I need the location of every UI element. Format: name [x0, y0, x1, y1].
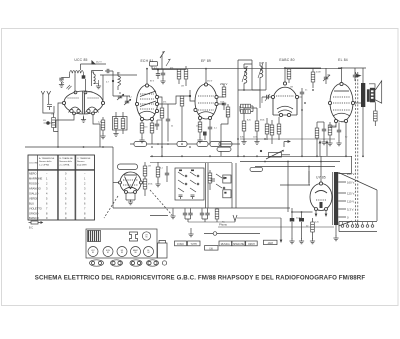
svg-text:160 V.: 160 V. [347, 181, 355, 185]
interstage wires tube2-tube3 [159, 103, 177, 105]
svg-text:5k: 5k [171, 126, 173, 128]
svg-text:COLORE: COLORE [29, 163, 38, 165]
trimmer capacitor CT2 [125, 101, 129, 103]
wire B+ to tube2 [146, 69, 148, 84]
resistor R21 [143, 179, 147, 189]
detector can box [238, 62, 266, 90]
knobs row [90, 260, 167, 266]
svg-text:ARANCIO: ARANCIO [29, 187, 41, 191]
capacitor C13 [300, 92, 304, 94]
capacitor C3 [166, 119, 170, 121]
svg-text:6,8k: 6,8k [240, 137, 244, 139]
node A [47, 122, 50, 125]
V arrow pickup [233, 215, 237, 221]
below tube5 parts [328, 125, 332, 135]
svg-text:1.a CIFRA: 1.a CIFRA [39, 164, 49, 167]
dark blob cap [203, 132, 207, 136]
svg-text:1,2k: 1,2k [315, 222, 319, 224]
long bus [150, 155, 352, 157]
svg-text:0,1: 0,1 [160, 168, 164, 170]
label box [177, 142, 187, 147]
svg-text:degli ZERI: degli ZERI [77, 165, 87, 167]
resistor R23 [215, 209, 219, 219]
small tube circle top right [142, 232, 150, 240]
shield box around R3 R4 [113, 117, 128, 131]
svg-text:JAZZ: JAZZ [267, 242, 273, 245]
svg-text:1M: 1M [268, 125, 271, 127]
svg-text:ROSSO: ROSSO [29, 182, 38, 186]
tube EF89 V3 [194, 83, 218, 120]
chassis transformer [158, 241, 168, 259]
node [189, 95, 191, 97]
bottom rail [113, 207, 290, 209]
svg-text:85 V: 85 V [150, 81, 155, 83]
svg-text:BIANCO: BIANCO [29, 216, 39, 220]
capacitor C19 [322, 129, 326, 131]
label box group: tone keys [175, 241, 187, 246]
resistor R16 [265, 124, 269, 134]
resistor R1 [52, 118, 56, 128]
capacitor inside switch [179, 195, 183, 199]
svg-text:125 V.: 125 V. [347, 192, 355, 196]
arrow pair tone [319, 141, 328, 156]
tube UCC85 V1 [62, 91, 104, 115]
ground below switch [170, 214, 175, 219]
wire filters [292, 208, 313, 212]
svg-text:85: 85 [92, 252, 94, 254]
svg-text:8,2: 8,2 [129, 97, 133, 99]
coil L2 [118, 76, 121, 86]
capacitor C9 [337, 130, 341, 132]
resistor R3 [114, 119, 118, 129]
voltage selector [339, 222, 377, 232]
mains switch diagonal [339, 173, 378, 191]
svg-text:FS: FS [43, 120, 46, 122]
bus with inline label boxes [25, 146, 113, 148]
capacitor dark blob [82, 75, 86, 78]
resistor R10 [180, 96, 184, 106]
dashed pointer [150, 190, 172, 215]
wire y169 [255, 167, 335, 184]
svg-text:1M: 1M [148, 166, 151, 168]
svg-text:5n: 5n [355, 74, 357, 76]
svg-text:5,3 V.: 5,3 V. [347, 208, 354, 212]
trimmer capacitor C7 [324, 77, 328, 79]
svg-text:C: TRASM.NE: C: TRASM.NE [77, 157, 91, 160]
top rail segment [285, 67, 321, 69]
svg-text:GIALLO: GIALLO [29, 192, 38, 196]
resistor R27 speaker [374, 111, 378, 121]
capacitor C8 [353, 75, 357, 77]
wire arrow down [280, 228, 282, 242]
color code table [28, 155, 95, 220]
wire coil to tube [70, 73, 76, 92]
svg-text:5n: 5n [305, 90, 307, 92]
svg-text:50: 50 [345, 137, 348, 139]
capacitor C10 [165, 173, 169, 175]
svg-text:27k: 27k [163, 102, 166, 104]
junction dots bus [151, 143, 191, 148]
switch contacts inside [178, 172, 196, 192]
vertical wires [232, 163, 236, 208]
voltage taps [338, 174, 346, 218]
switch contacts right [216, 174, 222, 188]
table border [28, 155, 95, 220]
svg-text:230 V: 230 V [220, 82, 227, 86]
resistor R8 [177, 69, 181, 79]
coil L1 above tube1 [70, 70, 84, 73]
ground [100, 134, 105, 139]
svg-text:SPRACHE: SPRACHE [233, 243, 245, 246]
resistor R11 below tube3 [198, 122, 202, 132]
capacitor inside switch [191, 195, 195, 199]
wire y162.5 [150, 162, 232, 164]
trimmer arrow up [166, 59, 170, 66]
ratio detector coil L3 [244, 68, 247, 83]
svg-text:50µF: 50µF [296, 218, 301, 220]
resistor R15 [255, 121, 259, 131]
ground [113, 131, 118, 136]
label box M.F.1 [134, 142, 147, 147]
resistor R26 [315, 128, 319, 138]
svg-text:80: 80 [134, 252, 136, 254]
IF can input [92, 71, 104, 87]
node arrow B+ [92, 61, 95, 64]
svg-text:10k: 10k [327, 75, 330, 77]
ground under tube1 [81, 117, 86, 122]
svg-text:FONO: FONO [177, 244, 184, 246]
svg-text:84: 84 [147, 252, 149, 254]
svg-text:NERO: NERO [29, 172, 37, 176]
wire to tube2 [113, 96, 130, 102]
svg-text:81: 81 [107, 252, 109, 254]
ground transformer [335, 225, 337, 236]
filter capacitor C12 [299, 218, 304, 222]
capacitor C16 [200, 213, 204, 215]
svg-text:MUSICA: MUSICA [221, 243, 230, 246]
svg-text:Riv: Riv [222, 222, 225, 224]
long bus2 [240, 161, 340, 163]
svg-text:100k: 100k [220, 102, 224, 104]
svg-text:470k: 470k [148, 184, 152, 186]
svg-text:89: 89 [121, 252, 123, 254]
value labels scatter [51, 68, 357, 228]
wire B+ to tube4 [284, 68, 286, 82]
B+ feed wire [81, 64, 107, 70]
resistor R22 [311, 222, 315, 232]
svg-text:220 V.: 220 V. [347, 172, 355, 176]
heater dashed line [355, 72, 357, 228]
resistor R13 [226, 107, 230, 117]
resistor R18 (striped tall) [311, 72, 315, 82]
node [112, 80, 114, 82]
balun bars [47, 105, 54, 113]
wires detector [238, 60, 252, 156]
tube EM84 V6 [119, 172, 143, 194]
capacitor C21 at EABC input [267, 95, 269, 99]
resistor R9 [184, 69, 188, 79]
svg-text:ECH 81: ECH 81 [140, 59, 153, 63]
capacitor C15 [188, 213, 192, 215]
svg-text:85: 85 [145, 237, 147, 239]
wire antenna gnd to bus [57, 132, 59, 148]
svg-text:0: 0 [347, 216, 349, 220]
resistor R5 below tube2 [140, 123, 144, 133]
wire y139 [240, 138, 335, 140]
capacitor C6 [222, 103, 226, 105]
wire [182, 96, 195, 101]
filter capacitor C11 [290, 219, 294, 221]
svg-text:Numero: Numero [77, 160, 85, 163]
svg-text:1M: 1M [181, 86, 184, 88]
components left of switch box [156, 167, 160, 177]
components right of switch box [208, 173, 212, 183]
wire UY85 pins down [315, 211, 327, 217]
heater dashed line [357, 72, 359, 228]
arrow AF out [284, 141, 290, 148]
svg-text:120k: 120k [253, 137, 257, 139]
resistor R4 [121, 119, 125, 129]
wire B+ to tube3 [205, 69, 207, 83]
table rows [29, 172, 86, 221]
volume potentiometer P1 [269, 153, 282, 158]
svg-text:470k: 470k [332, 126, 336, 128]
svg-text:110 V.: 110 V. [347, 200, 355, 204]
label box [210, 142, 221, 147]
coil L5 [94, 74, 96, 84]
label box MF1 [150, 62, 158, 67]
resistor R12 right of tube3 [222, 87, 226, 97]
svg-text:B: TRASM.NE: B: TRASM.NE [60, 157, 74, 160]
resistor R14 [242, 121, 246, 131]
switch bank box [175, 168, 204, 200]
circle node [213, 232, 217, 236]
capacitor C20 [156, 74, 160, 76]
resistor R17 [287, 69, 291, 79]
double vertical right of box [206, 163, 208, 208]
magic eye label box [118, 164, 138, 170]
antenna dipole [41, 91, 53, 113]
trimmer capacitor CT1 [118, 96, 122, 98]
capacitor C4 [161, 73, 165, 75]
ground [188, 232, 193, 237]
heater arrow [357, 74, 361, 77]
svg-text:Numero della: Numero della [39, 160, 52, 163]
wire EM84 to bus [113, 182, 119, 184]
svg-text:TUTTI: TUTTI [190, 244, 197, 246]
tube UY85 V7 [310, 182, 332, 211]
wires EM84 [126, 194, 135, 201]
capacitor C18 [107, 69, 109, 73]
chassis layout box [86, 229, 157, 258]
dashed pointer [104, 196, 118, 218]
tube circles row [88, 247, 98, 257]
wire to UY85 [280, 184, 310, 186]
wire input to tube1 [54, 103, 65, 132]
wire UY85 [320, 162, 322, 183]
wire rail down [152, 66, 186, 69]
wire det label [220, 124, 222, 156]
wire row y215 [150, 215, 168, 217]
wires right area [287, 162, 289, 213]
svg-text:A: TRASMIS.NE: A: TRASMIS.NE [39, 157, 55, 160]
svg-text:MARRONE: MARRONE [29, 177, 43, 181]
svg-text:1M: 1M [290, 87, 293, 89]
wire bus144 [130, 143, 240, 145]
svg-text:330k: 330k [260, 120, 264, 122]
wire tube1 bottom to bus [56, 115, 74, 129]
svg-text:VIOLETTO: VIOLETTO [29, 207, 42, 211]
table header text [29, 157, 91, 167]
label box [197, 142, 208, 147]
dark contact marks [179, 170, 182, 172]
interstage rail [100, 74, 137, 76]
label box pot [250, 167, 263, 171]
wire pickup to arrow [237, 217, 281, 219]
cap dash [211, 179, 216, 181]
ratio detector coil L4 [260, 66, 263, 77]
tube EABC80 V4 [271, 82, 298, 117]
svg-text:0,5M: 0,5M [316, 72, 321, 74]
svg-text:2.a CIFRA: 2.a CIFRA [60, 164, 70, 167]
speaker magnet [367, 89, 370, 102]
power transformer T2 [334, 172, 338, 225]
sub box upper [223, 175, 231, 183]
capacitor C22 [155, 124, 159, 126]
capacitor C2 to ground [59, 78, 63, 80]
trimmer barrel [130, 232, 138, 241]
resistor R20 [143, 166, 147, 176]
svg-text:4,7: 4,7 [106, 82, 110, 84]
svg-text:22k: 22k [117, 73, 120, 75]
IF can hatched [88, 231, 101, 242]
capacitor C17 [205, 213, 209, 215]
svg-text:2,2k: 2,2k [98, 122, 102, 124]
svg-text:GRIGIO: GRIGIO [29, 212, 38, 216]
resistor R19 [277, 124, 281, 134]
svg-text:EABC 80: EABC 80 [279, 58, 294, 62]
svg-text:SCHEMA ELETTRICO DEL RADIORICE: SCHEMA ELETTRICO DEL RADIORICEVITORE G.B… [35, 274, 366, 281]
wire detector row [221, 108, 257, 124]
resistor R6 below tube2 [150, 123, 154, 133]
svg-text:EF 89: EF 89 [201, 59, 211, 63]
svg-text:ORCH: ORCH [248, 244, 255, 246]
svg-text:VERDE: VERDE [29, 197, 38, 201]
main B+ rail [152, 68, 341, 70]
label box [219, 142, 232, 147]
svg-text:8,2k: 8,2k [247, 120, 251, 122]
wires speaker [369, 84, 375, 111]
wire tube1 to bus [99, 124, 101, 147]
ground IF can [96, 84, 101, 89]
svg-text:EL 84: EL 84 [338, 58, 348, 62]
svg-text:UKW: UKW [88, 92, 93, 94]
capacitor C14 [183, 213, 187, 215]
svg-text:0,1: 0,1 [214, 128, 218, 130]
node [260, 150, 262, 152]
svg-text:UCC 85: UCC 85 [74, 58, 87, 62]
svg-text:BLU: BLU [29, 202, 34, 206]
tube ECH81 V2 [135, 84, 158, 121]
IF1 transformer rail [152, 68, 186, 70]
output transformer T1 [361, 83, 365, 107]
resistor R24 horizontal [241, 104, 251, 108]
svg-text:212 V: 212 V [96, 62, 102, 64]
resistor legend under table [29, 221, 43, 230]
mains diagonal lower [339, 221, 353, 226]
rail to output [338, 67, 366, 69]
below tube4: resistors [270, 125, 274, 135]
capacitor C5 below tube3 [208, 127, 212, 129]
svg-text:230 V: 230 V [207, 81, 213, 83]
wire B+ to tube5 [341, 68, 343, 83]
svg-text:Numero della: Numero della [60, 160, 73, 163]
svg-text:B C: B C [29, 227, 33, 230]
label box det [217, 147, 231, 151]
sub box lower [223, 190, 231, 198]
loudspeaker LS1 [370, 81, 382, 103]
resistor R7 right of tube2 [160, 108, 164, 118]
wire [345, 123, 347, 157]
hatch mark grid cap [67, 85, 72, 90]
svg-text:47k: 47k [170, 68, 173, 70]
heater run [218, 226, 334, 228]
resistor R2 [101, 120, 105, 130]
tube EL84 V5 [328, 82, 354, 122]
svg-text:220: 220 [144, 127, 148, 129]
node [157, 69, 159, 71]
svg-text:150: 150 [51, 114, 55, 116]
resistor R25 horizontal [241, 110, 251, 114]
wire 220V tap [346, 156, 352, 173]
